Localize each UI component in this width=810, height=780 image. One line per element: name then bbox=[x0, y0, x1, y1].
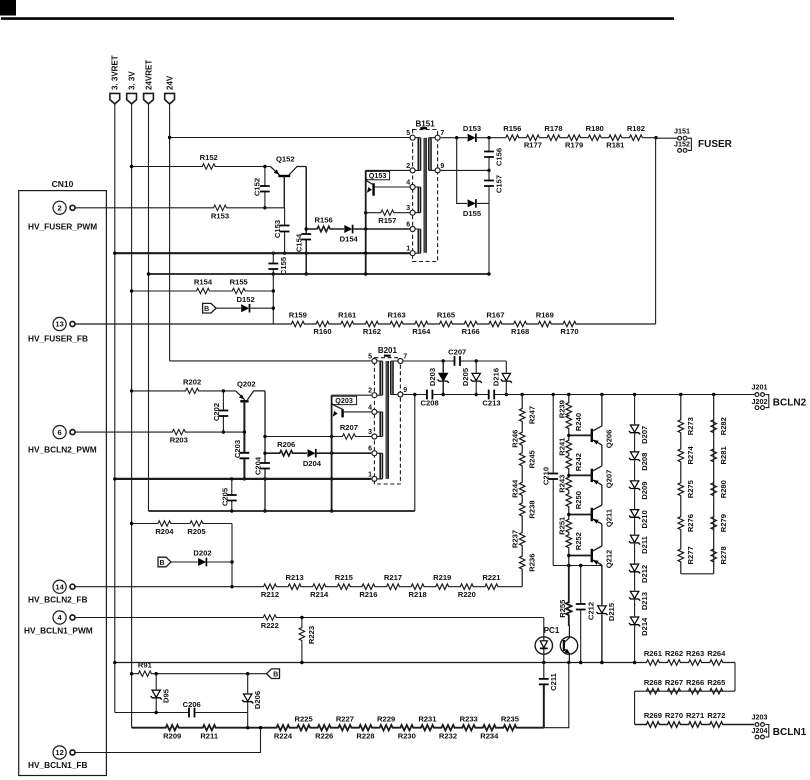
B151 pin 1 bbox=[406, 246, 415, 256]
svg-text:R251: R251 bbox=[558, 516, 567, 535]
svg-text:C212: C212 bbox=[586, 602, 595, 620]
svg-text:R266: R266 bbox=[686, 678, 704, 687]
transistor Q211 bbox=[567, 505, 613, 527]
svg-text:R243: R243 bbox=[558, 475, 567, 493]
resistor R156 low side bbox=[306, 216, 344, 232]
diode D152 bbox=[216, 295, 273, 313]
B151 pin 2 bbox=[406, 163, 415, 173]
svg-text:HV_FUSER_PWM: HV_FUSER_PWM bbox=[28, 222, 97, 232]
svg-text:R233: R233 bbox=[460, 714, 478, 723]
svg-text:Q211: Q211 bbox=[604, 508, 613, 527]
svg-text:R255: R255 bbox=[558, 599, 567, 618]
svg-text:R169: R169 bbox=[536, 310, 554, 319]
diode D154 bbox=[340, 225, 410, 244]
svg-text:Q203: Q203 bbox=[335, 396, 353, 405]
zener diode D211 bbox=[629, 535, 649, 554]
diode D215 bbox=[596, 566, 616, 663]
svg-text:1: 1 bbox=[406, 246, 410, 253]
B201 pin 2 bbox=[368, 388, 377, 398]
zener diode D207 bbox=[629, 425, 649, 444]
flag B fuser bbox=[203, 303, 216, 313]
wire ladder bottom bbox=[681, 573, 714, 575]
svg-text:D210: D210 bbox=[640, 510, 649, 528]
resistor R203 / pin6 wire bbox=[75, 429, 244, 444]
svg-text:HV_FUSER_FB: HV_FUSER_FB bbox=[28, 334, 88, 344]
svg-text:HV_BCLN2_PWM: HV_BCLN2_PWM bbox=[28, 445, 97, 455]
svg-text:R274: R274 bbox=[686, 446, 695, 465]
svg-text:R273: R273 bbox=[686, 417, 695, 435]
svg-text:R229: R229 bbox=[377, 714, 395, 723]
B151 pin 9 bbox=[435, 163, 444, 173]
svg-text:D212: D212 bbox=[640, 565, 649, 583]
wire Q207-Q211 bbox=[601, 485, 603, 505]
B201 pin 7 bbox=[398, 353, 407, 363]
svg-text:R181: R181 bbox=[606, 141, 625, 150]
svg-text:9: 9 bbox=[403, 387, 407, 394]
pin 13 HV_FUSER_FB bbox=[28, 317, 88, 343]
svg-text:5: 5 bbox=[406, 130, 410, 137]
capacitor C213 bbox=[482, 390, 754, 408]
svg-text:R269: R269 bbox=[644, 711, 662, 720]
transformer B201 dashed box bbox=[374, 346, 400, 484]
svg-text:Q202: Q202 bbox=[237, 379, 256, 388]
resistor R255 bbox=[558, 566, 572, 626]
svg-text:4: 4 bbox=[406, 179, 410, 186]
svg-text:D208: D208 bbox=[640, 453, 649, 471]
transformer B151 base winding bbox=[415, 187, 420, 213]
svg-text:R225: R225 bbox=[295, 714, 314, 723]
svg-text:C204: C204 bbox=[254, 456, 263, 475]
svg-text:D216: D216 bbox=[491, 368, 500, 386]
svg-text:5: 5 bbox=[368, 353, 372, 360]
svg-text:R205: R205 bbox=[187, 527, 206, 536]
wire Q206-Q207 bbox=[601, 445, 603, 466]
svg-text:HV_BCLN2_FB: HV_BCLN2_FB bbox=[28, 595, 87, 605]
svg-text:C211: C211 bbox=[549, 672, 558, 691]
zener diode D209 bbox=[629, 481, 649, 500]
connector J151 bbox=[656, 126, 690, 140]
title rule line bbox=[1, 17, 674, 20]
capacitor C157 bbox=[484, 170, 504, 275]
svg-text:C206: C206 bbox=[183, 700, 201, 709]
svg-text:D213: D213 bbox=[640, 592, 649, 610]
capacitor C206 bbox=[115, 700, 248, 717]
zener diode D212 bbox=[629, 564, 649, 583]
svg-text:2: 2 bbox=[406, 163, 410, 170]
pin 2 HV_FUSER_PWM bbox=[28, 201, 97, 231]
transistor Q207 bbox=[567, 466, 613, 488]
transistor Q206 bbox=[567, 395, 613, 449]
svg-text:R156: R156 bbox=[315, 216, 333, 225]
wire pin4 to PC1 LED bbox=[543, 618, 545, 637]
pin 12 HV_BCLN1_FB bbox=[28, 746, 87, 770]
svg-text:R247: R247 bbox=[528, 406, 537, 424]
diode D204 bbox=[303, 449, 371, 468]
svg-text:J152: J152 bbox=[674, 140, 690, 149]
svg-text:R161: R161 bbox=[338, 310, 357, 319]
rail 3.3V bbox=[131, 104, 133, 728]
svg-text:3: 3 bbox=[406, 205, 410, 212]
svg-text:B: B bbox=[204, 306, 209, 313]
svg-text:R166: R166 bbox=[462, 327, 480, 336]
fuser output chain R158 R177-R182 bbox=[503, 124, 657, 150]
wire B151 pin9 bbox=[441, 169, 491, 172]
fuser feedback riser wire bbox=[655, 138, 657, 324]
svg-text:C208: C208 bbox=[421, 398, 439, 407]
svg-text:D202: D202 bbox=[193, 549, 211, 558]
svg-text:R224: R224 bbox=[274, 732, 293, 741]
svg-text:D211: D211 bbox=[640, 535, 649, 554]
wire Q212 emitter bbox=[601, 564, 603, 567]
capacitor C152 bbox=[252, 165, 269, 210]
resistor row R269-R272 bbox=[635, 711, 755, 727]
svg-text:R275: R275 bbox=[686, 479, 695, 498]
svg-text:4: 4 bbox=[58, 613, 63, 622]
svg-text:C203: C203 bbox=[233, 440, 242, 458]
power flag 3.3V bbox=[127, 71, 137, 104]
svg-text:D206: D206 bbox=[253, 691, 262, 709]
diode D206 bbox=[242, 674, 262, 728]
svg-text:CN10: CN10 bbox=[52, 179, 74, 189]
svg-text:R165: R165 bbox=[437, 310, 456, 319]
main wire HV return bbox=[113, 649, 735, 665]
svg-text:J201: J201 bbox=[752, 383, 768, 392]
svg-text:R215: R215 bbox=[335, 573, 354, 582]
wire feedback riser bbox=[230, 524, 233, 589]
svg-text:D204: D204 bbox=[303, 459, 322, 468]
svg-text:R277: R277 bbox=[686, 546, 695, 564]
svg-text:R261: R261 bbox=[644, 649, 663, 658]
svg-text:D95: D95 bbox=[161, 688, 170, 703]
svg-text:R211: R211 bbox=[200, 732, 219, 741]
pin 14 HV_BCLN2_FB bbox=[28, 580, 87, 604]
transformer B201 core bbox=[384, 356, 391, 479]
svg-text:R202: R202 bbox=[183, 378, 201, 387]
svg-text:R219: R219 bbox=[433, 573, 451, 582]
svg-text:R212: R212 bbox=[261, 590, 279, 599]
capacitor C212 bbox=[576, 566, 596, 663]
svg-text:6: 6 bbox=[368, 446, 372, 453]
svg-text:R91: R91 bbox=[138, 660, 153, 669]
svg-text:D214: D214 bbox=[640, 617, 649, 636]
resistor R222 / pin4 wire bbox=[75, 615, 544, 630]
resistor chain R247 R246 R245 R244 R238 R237 R236 bbox=[511, 395, 537, 587]
svg-text:R178: R178 bbox=[544, 124, 562, 133]
svg-text:Q152: Q152 bbox=[276, 155, 295, 164]
wire 24V to B151 pin5 bbox=[168, 136, 410, 139]
svg-text:R252: R252 bbox=[574, 532, 583, 550]
resistors R154 R155 bbox=[130, 278, 273, 294]
transformer B151 dashed box bbox=[413, 120, 438, 262]
B151 pin 6 bbox=[406, 221, 415, 231]
transformer B201 secondary winding bbox=[391, 361, 398, 395]
svg-text:B: B bbox=[159, 560, 164, 567]
svg-text:R218: R218 bbox=[409, 590, 427, 599]
resistor R223 bbox=[299, 618, 316, 663]
svg-text:R162: R162 bbox=[363, 327, 381, 336]
svg-text:R213: R213 bbox=[286, 573, 304, 582]
svg-text:R235: R235 bbox=[501, 714, 520, 723]
svg-text:R228: R228 bbox=[356, 732, 374, 741]
B201 pin 6 bbox=[368, 446, 377, 456]
svg-text:Q206: Q206 bbox=[604, 430, 613, 449]
svg-text:4: 4 bbox=[368, 404, 372, 411]
resistor R206 bbox=[265, 440, 307, 456]
connector J201 bbox=[752, 383, 768, 397]
wire Q211-Q212 bbox=[601, 524, 603, 546]
svg-text:9: 9 bbox=[440, 163, 444, 170]
svg-text:12: 12 bbox=[55, 748, 63, 757]
svg-text:R262: R262 bbox=[665, 649, 683, 658]
diode D205 bbox=[461, 361, 482, 396]
svg-text:R223: R223 bbox=[307, 626, 316, 644]
diode D153 bbox=[441, 124, 506, 142]
svg-text:R177: R177 bbox=[524, 141, 542, 150]
power flag 24V bbox=[165, 75, 175, 104]
svg-text:BCLN1: BCLN1 bbox=[773, 727, 807, 738]
B151 pin 5 bbox=[406, 130, 415, 140]
svg-text:2: 2 bbox=[368, 388, 372, 395]
wire riser left bbox=[634, 691, 636, 724]
connector J204 bbox=[752, 726, 768, 739]
svg-text:R214: R214 bbox=[310, 590, 329, 599]
diode D155 bbox=[457, 138, 489, 218]
svg-text:R226: R226 bbox=[315, 732, 333, 741]
svg-text:C210: C210 bbox=[542, 467, 551, 485]
transistor Q202 bbox=[236, 379, 265, 401]
svg-text:R232: R232 bbox=[439, 732, 457, 741]
svg-text:D154: D154 bbox=[340, 235, 359, 244]
svg-text:C157: C157 bbox=[495, 175, 504, 193]
B201 pin 1 bbox=[368, 471, 377, 481]
capacitor C211 bbox=[539, 663, 558, 728]
capacitor C156 bbox=[484, 138, 504, 171]
svg-text:Q207: Q207 bbox=[604, 470, 613, 489]
svg-text:C154: C154 bbox=[295, 233, 304, 252]
wire 24VRET return bcln2 bbox=[149, 393, 417, 511]
svg-text:Q212: Q212 bbox=[604, 550, 613, 569]
svg-text:2: 2 bbox=[58, 204, 62, 213]
connector J202 bbox=[752, 397, 768, 410]
svg-text:R270: R270 bbox=[665, 711, 683, 720]
wire riser right bbox=[734, 663, 736, 692]
resistor R153 / pin2 wire bbox=[75, 205, 285, 220]
capacitor C204 bbox=[254, 391, 270, 513]
svg-text:C202: C202 bbox=[212, 403, 221, 421]
svg-text:D155: D155 bbox=[463, 209, 482, 218]
svg-text:R203: R203 bbox=[170, 436, 188, 445]
resistor R91 bbox=[130, 660, 267, 676]
svg-text:B201: B201 bbox=[378, 346, 398, 355]
capacitor C202 bbox=[212, 391, 228, 434]
svg-text:D215: D215 bbox=[607, 602, 616, 621]
svg-text:R271: R271 bbox=[686, 711, 705, 720]
svg-text:R156: R156 bbox=[503, 124, 521, 133]
svg-text:3. 3V: 3. 3V bbox=[128, 71, 137, 90]
connector J203 bbox=[752, 713, 768, 727]
svg-text:7: 7 bbox=[440, 130, 444, 137]
svg-text:J204: J204 bbox=[752, 726, 768, 735]
svg-text:R221: R221 bbox=[482, 573, 501, 582]
svg-text:24V: 24V bbox=[166, 75, 175, 90]
svg-text:FUSER: FUSER bbox=[698, 139, 733, 150]
resistor row R265-R268 bbox=[635, 678, 735, 694]
zener diode D210 bbox=[629, 510, 649, 529]
svg-text:R264: R264 bbox=[707, 649, 726, 658]
svg-text:J202: J202 bbox=[752, 397, 768, 406]
black index square bbox=[0, 0, 16, 16]
transformer B201 feedback winding bbox=[377, 453, 383, 479]
zener diode D213 bbox=[629, 591, 649, 610]
diode D95 bbox=[151, 674, 171, 713]
svg-text:HV_BCLN1_PWM: HV_BCLN1_PWM bbox=[24, 626, 93, 636]
svg-text:C153: C153 bbox=[273, 220, 282, 238]
svg-text:R167: R167 bbox=[486, 310, 504, 319]
capacitor C155 bbox=[268, 252, 287, 325]
svg-text:R227: R227 bbox=[336, 714, 354, 723]
svg-text:24VRET: 24VRET bbox=[144, 60, 153, 90]
svg-text:R220: R220 bbox=[458, 590, 476, 599]
svg-text:R209: R209 bbox=[163, 732, 181, 741]
svg-text:J203: J203 bbox=[752, 713, 768, 722]
svg-text:R160: R160 bbox=[313, 327, 331, 336]
connector CN10 box bbox=[19, 179, 107, 775]
svg-text:R179: R179 bbox=[565, 141, 583, 150]
svg-text:R272: R272 bbox=[707, 711, 725, 720]
transformer B151 feedback winding bbox=[415, 229, 420, 253]
wire 3.3VRET return fuser bbox=[113, 252, 409, 255]
flag B bcln1 bbox=[267, 669, 280, 679]
svg-text:R246: R246 bbox=[511, 430, 520, 448]
svg-text:R240: R240 bbox=[574, 413, 583, 431]
resistor R152 bbox=[130, 153, 270, 169]
svg-text:B: B bbox=[273, 672, 278, 679]
svg-text:R250: R250 bbox=[574, 491, 583, 509]
resistor chain R239 R240 R241 R242 R243 R250 R251 R252 bbox=[558, 395, 583, 566]
optocoupler PC1 transistor bbox=[560, 625, 577, 663]
svg-text:14: 14 bbox=[55, 582, 64, 591]
BCLN2 bracket label bbox=[765, 395, 806, 409]
zener diode D208 bbox=[629, 452, 649, 471]
svg-text:R163: R163 bbox=[388, 310, 406, 319]
diode D203 bbox=[428, 361, 449, 396]
pin 6 HV_BCLN2_PWM bbox=[28, 426, 97, 455]
capacitor C208 bbox=[404, 390, 489, 408]
svg-text:R282: R282 bbox=[719, 417, 728, 435]
transformer B151 core bbox=[420, 128, 427, 253]
svg-text:D207: D207 bbox=[640, 426, 649, 444]
svg-text:C213: C213 bbox=[482, 398, 500, 407]
svg-text:R242: R242 bbox=[574, 453, 583, 471]
svg-text:6: 6 bbox=[58, 428, 62, 437]
svg-text:R222: R222 bbox=[261, 621, 279, 630]
svg-text:R216: R216 bbox=[359, 590, 377, 599]
svg-text:R267: R267 bbox=[665, 678, 683, 687]
svg-text:R265: R265 bbox=[707, 678, 726, 687]
transformer B201 base winding bbox=[377, 412, 383, 437]
feedback chain R209 R211 R224-R235 bbox=[132, 714, 544, 740]
power flag 3.3VRET bbox=[110, 55, 120, 104]
svg-text:R236: R236 bbox=[528, 554, 537, 572]
diode D216 bbox=[491, 361, 512, 396]
svg-text:BCLN2: BCLN2 bbox=[773, 397, 807, 408]
resistor R202 bbox=[130, 378, 236, 394]
pin 4 HV_BCLN1_PWM bbox=[24, 611, 93, 636]
svg-text:D205: D205 bbox=[461, 367, 470, 386]
resistor chain R278-R282 bbox=[711, 395, 728, 574]
svg-text:R234: R234 bbox=[480, 732, 499, 741]
capacitor C210 bbox=[542, 395, 558, 566]
feedback chain R212-R221 / pin14 wire bbox=[75, 573, 522, 599]
resistor R157 bbox=[364, 210, 410, 225]
svg-text:R239: R239 bbox=[558, 400, 567, 418]
svg-text:R279: R279 bbox=[719, 514, 728, 532]
B151 pin 3 bbox=[406, 205, 415, 215]
svg-text:R157: R157 bbox=[378, 216, 396, 225]
svg-text:6: 6 bbox=[406, 221, 410, 228]
svg-text:Q153: Q153 bbox=[369, 171, 387, 180]
B151 pin 7 bbox=[435, 130, 444, 140]
transistor Q153 bbox=[364, 170, 410, 275]
svg-text:R152: R152 bbox=[200, 153, 218, 162]
svg-text:R241: R241 bbox=[558, 437, 567, 456]
B201 pin 4 bbox=[368, 404, 377, 414]
svg-text:R237: R237 bbox=[511, 530, 520, 548]
transformer B151 secondary winding bbox=[429, 138, 435, 171]
capacitor C203 bbox=[233, 401, 249, 480]
transistor Q203 bbox=[330, 395, 371, 513]
transistor Q212 bbox=[567, 546, 613, 568]
rail 24V bbox=[169, 104, 171, 361]
rail 3.3VRET bbox=[114, 104, 116, 713]
svg-text:C152: C152 bbox=[252, 178, 261, 196]
svg-text:R268: R268 bbox=[644, 678, 662, 687]
optocoupler PC1 LED bbox=[535, 626, 560, 663]
svg-text:R238: R238 bbox=[528, 500, 537, 518]
zener diode D214 bbox=[629, 617, 649, 636]
svg-text:R230: R230 bbox=[398, 732, 416, 741]
svg-text:C156: C156 bbox=[495, 148, 504, 166]
wire Q153 emitter to 24VRET bbox=[365, 253, 367, 274]
capacitor C153 bbox=[273, 208, 289, 255]
capacitor C207 bbox=[404, 348, 507, 366]
diode D202 bbox=[171, 549, 232, 567]
svg-text:R164: R164 bbox=[412, 327, 431, 336]
svg-text:D203: D203 bbox=[428, 368, 437, 386]
wire pin12 riser bbox=[75, 728, 260, 753]
fuser feedback chain R159-R170 bbox=[75, 310, 656, 336]
svg-text:R153: R153 bbox=[211, 211, 229, 220]
transformer B201 primary winding bbox=[377, 361, 383, 395]
transistor Q152 bbox=[270, 155, 306, 208]
svg-text:3: 3 bbox=[368, 429, 372, 436]
svg-text:13: 13 bbox=[55, 320, 63, 329]
svg-text:R245: R245 bbox=[528, 449, 537, 468]
svg-text:R244: R244 bbox=[511, 479, 520, 498]
svg-text:R168: R168 bbox=[511, 327, 529, 336]
svg-text:R204: R204 bbox=[155, 527, 174, 536]
svg-text:R170: R170 bbox=[560, 327, 578, 336]
svg-text:PC1: PC1 bbox=[544, 626, 560, 635]
svg-text:R207: R207 bbox=[340, 423, 358, 432]
svg-text:R180: R180 bbox=[586, 124, 604, 133]
svg-text:C205: C205 bbox=[220, 487, 229, 506]
svg-text:D152: D152 bbox=[237, 295, 255, 304]
resistor R207 bbox=[265, 423, 371, 439]
power flag 24VRET bbox=[144, 60, 154, 104]
svg-text:R278: R278 bbox=[719, 546, 728, 564]
svg-text:C207: C207 bbox=[448, 348, 466, 357]
